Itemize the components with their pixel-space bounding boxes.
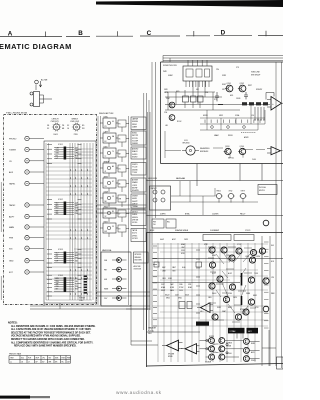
svg-text:4ER8: 4ER8 xyxy=(104,176,108,178)
grid tick 4 xyxy=(265,31,267,36)
transistor Q308 xyxy=(217,276,223,282)
switch stage block 1 xyxy=(100,116,129,132)
IC IC102 with pin rows xyxy=(54,199,74,215)
input jack J7 ADPT xyxy=(9,214,44,218)
volume diode D1 xyxy=(104,258,127,263)
thick bar wire xyxy=(241,273,243,305)
svg-text:L1X: L1X xyxy=(56,258,59,260)
svg-text:NCPP8: NCPP8 xyxy=(209,336,214,338)
input jack J9 PRE xyxy=(9,236,44,240)
resistor array left of IC104 xyxy=(47,275,52,296)
svg-text:EBV3HDF: EBV3HDF xyxy=(200,151,209,153)
rec-out selector box xyxy=(150,186,171,210)
svg-text:LVT: LVT xyxy=(56,158,59,160)
grid tick 2 xyxy=(117,31,119,36)
svg-text:LL: LL xyxy=(10,361,12,363)
middle band top border xyxy=(147,180,284,182)
electrolytic capacitor C21 xyxy=(216,191,223,203)
svg-text:KN0NT: KN0NT xyxy=(132,156,138,158)
left block vertical bus wires xyxy=(46,143,93,300)
svg-text:Q204: Q204 xyxy=(240,146,244,148)
resistor R13 xyxy=(249,102,254,105)
svg-text:EMK1: EMK1 xyxy=(253,295,257,297)
svg-text:K6C8: K6C8 xyxy=(185,295,189,297)
output transistor Q404 xyxy=(219,346,225,352)
svg-text:N5HWW: N5HWW xyxy=(132,190,139,192)
svg-text:TAPE1: TAPE1 xyxy=(9,183,16,186)
notes text block xyxy=(8,322,96,348)
capacitor C11 xyxy=(215,92,219,101)
svg-text:SIG: SIG xyxy=(9,248,13,250)
resistor array right of IC104 xyxy=(78,275,82,296)
svg-text:CXB: CXB xyxy=(56,148,59,150)
svg-text:ALL CAPACITORS ARE IN UF UNLES: ALL CAPACITORS ARE IN UF UNLESS MARKED O… xyxy=(11,328,92,331)
inter-band vertical connectors xyxy=(197,164,262,187)
svg-text:K44: K44 xyxy=(21,358,24,360)
svg-text:PS: PS xyxy=(105,126,107,128)
input jack J8 MAIN xyxy=(9,225,44,229)
right edge verticals xyxy=(262,62,282,368)
IC IC101 with pin rows xyxy=(54,144,74,159)
svg-text:KBFGL1: KBFGL1 xyxy=(228,158,234,160)
transistor Q307 xyxy=(229,255,235,261)
electronic volume label box xyxy=(134,252,149,263)
svg-text:AC ME: AC ME xyxy=(41,79,48,82)
svg-text:B5DVSW: B5DVSW xyxy=(135,260,143,262)
emitter small circles xyxy=(206,339,228,354)
function label box 6 xyxy=(131,194,146,208)
series resistors row xyxy=(218,104,223,106)
svg-text:NOTES:: NOTES: xyxy=(8,322,18,325)
svg-text:L3P: L3P xyxy=(56,260,59,262)
volume diode D5 xyxy=(104,296,127,301)
svg-text:W3: W3 xyxy=(82,128,85,130)
power amp section border xyxy=(147,233,284,368)
middle column bus wires xyxy=(98,112,150,310)
output transistor Q409 xyxy=(243,356,249,362)
svg-text:9E7: 9E7 xyxy=(56,289,59,291)
svg-text:96T: 96T xyxy=(49,358,52,360)
svg-text:RF5: RF5 xyxy=(56,205,59,207)
svg-text:6AKB-AA4: 6AKB-AA4 xyxy=(176,177,185,180)
svg-text:LH6: LH6 xyxy=(75,153,78,155)
svg-text:2X69: 2X69 xyxy=(179,284,183,286)
input jack J6 TAPE2 xyxy=(9,203,44,207)
svg-text:K9E SH4DP: K9E SH4DP xyxy=(251,74,261,76)
svg-text:CTKV1: CTKV1 xyxy=(245,230,251,232)
svg-text:WT65D9: WT65D9 xyxy=(135,254,142,256)
transistor Q313 xyxy=(248,299,254,305)
svg-text:SM5: SM5 xyxy=(55,358,58,360)
input jack J12 EXT xyxy=(9,270,44,274)
svg-text:XSN: XSN xyxy=(56,153,59,155)
svg-text:1GC0: 1GC0 xyxy=(233,297,237,299)
volume diode D3 xyxy=(104,277,127,282)
switch body S1 xyxy=(34,92,40,107)
rotary selector S101 xyxy=(47,119,64,136)
svg-text:92N: 92N xyxy=(75,260,78,262)
svg-text:DM0BD: DM0BD xyxy=(132,143,139,145)
svg-text:9V: 9V xyxy=(112,226,114,228)
function label box 5 xyxy=(131,178,146,192)
svg-text:LSV2-FKN: LSV2-FKN xyxy=(148,178,158,180)
input jack J10 SIG xyxy=(9,246,44,250)
transistor Q303 xyxy=(236,248,242,254)
power amp wire stubs xyxy=(208,247,256,322)
output transistor Q405 xyxy=(209,354,215,360)
right edge comb xyxy=(264,242,269,328)
svg-text:CFS: CFS xyxy=(56,286,59,288)
rec-out selector contacts xyxy=(153,190,165,202)
input jack J11 GND xyxy=(9,259,44,263)
bias texts top right xyxy=(214,84,263,101)
svg-text:EL40: EL40 xyxy=(182,267,186,269)
switch stage block 8 xyxy=(100,221,129,237)
svg-text:VWGVT: VWGVT xyxy=(151,188,157,190)
transistor Q317 xyxy=(259,248,265,254)
svg-text:EMATIC DIAGRAM: EMATIC DIAGRAM xyxy=(0,42,72,51)
svg-text:T2: T2 xyxy=(105,156,107,158)
svg-text:7AT1N: 7AT1N xyxy=(132,229,138,232)
svg-text:CT2L: CT2L xyxy=(237,244,241,246)
power amp diagonal wires xyxy=(216,254,250,314)
svg-text:HSD2: HSD2 xyxy=(217,191,221,193)
power amp resistor comb 5 xyxy=(153,246,157,326)
svg-text:FBC27: FBC27 xyxy=(240,213,245,215)
transistor Q206 xyxy=(169,115,175,121)
svg-text:PVL3GH: PVL3GH xyxy=(259,187,266,189)
svg-text:LTB: LTB xyxy=(271,277,274,279)
resistor array right of IC102 xyxy=(78,200,82,220)
pin ref texts IC102 xyxy=(56,203,80,215)
transistor Q312 xyxy=(223,296,229,302)
resistor array left of IC101 xyxy=(47,145,52,164)
junction dots left block xyxy=(70,170,88,295)
svg-text:BSFF: BSFF xyxy=(150,230,154,232)
transistor Q315 xyxy=(212,314,218,320)
svg-text:61MC: 61MC xyxy=(104,116,109,118)
output wires xyxy=(200,333,260,359)
transistor Q309 xyxy=(248,277,254,283)
mid row labels xyxy=(203,114,254,117)
svg-text:HB: HB xyxy=(62,128,64,130)
svg-text:R8W: R8W xyxy=(75,289,79,291)
aux small box 1 xyxy=(152,219,164,228)
transistor Q301 xyxy=(209,247,215,253)
svg-text:GHV5: GHV5 xyxy=(160,239,164,241)
inter-section wires xyxy=(96,205,158,345)
svg-text:TN4AA: TN4AA xyxy=(132,205,138,208)
svg-text:70: 70 xyxy=(112,151,114,153)
svg-text:GT090: GT090 xyxy=(132,222,137,224)
svg-text:G7: G7 xyxy=(112,181,114,183)
svg-text:LT: LT xyxy=(28,361,30,363)
electronic volume label text xyxy=(135,254,143,261)
switch contact b xyxy=(30,103,33,106)
left block horizontal wires xyxy=(46,149,93,300)
svg-text:ALL COMPONENTS IDENTIFIED BY S: ALL COMPONENTS IDENTIFIED BY SHADING ARE… xyxy=(11,341,94,344)
function label box 7 xyxy=(131,210,146,226)
svg-text:XCE4: XCE4 xyxy=(228,293,232,295)
svg-text:MAIN: MAIN xyxy=(9,226,15,229)
switch stage block 4 xyxy=(100,160,129,177)
svg-text:X7: X7 xyxy=(119,214,121,216)
svg-text:9VR7: 9VR7 xyxy=(104,221,108,223)
svg-text:XV85: XV85 xyxy=(181,250,185,252)
power switch S1 terminal xyxy=(35,80,39,84)
switch stage block 2 xyxy=(100,131,129,147)
power amp horizontal wires xyxy=(152,244,268,326)
capacitor C12 xyxy=(244,92,248,99)
svg-text:PRE: PRE xyxy=(9,238,14,240)
band mid wires xyxy=(171,181,258,215)
svg-text:5X: 5X xyxy=(112,196,114,198)
output transistor Q406 xyxy=(219,354,225,360)
component value texts xyxy=(160,238,261,313)
svg-text:41: 41 xyxy=(105,171,107,173)
channel label box R xyxy=(247,328,259,334)
svg-text:D: D xyxy=(221,30,226,37)
band right box xyxy=(258,185,277,195)
tone/control section border xyxy=(161,62,284,164)
svg-text:41EPN: 41EPN xyxy=(160,213,166,215)
svg-text:P7SW: P7SW xyxy=(179,287,184,289)
bottom row texts topright xyxy=(228,158,257,162)
left block exit wires xyxy=(30,292,150,309)
svg-text:WSS3: WSS3 xyxy=(228,135,233,137)
svg-text:X69: X69 xyxy=(56,210,59,212)
sub-module pin stubs xyxy=(186,81,209,87)
svg-text:D3G2: D3G2 xyxy=(212,255,216,257)
svg-text:R827: R827 xyxy=(248,85,252,87)
wire switch to right xyxy=(36,85,52,104)
svg-text:61E0: 61E0 xyxy=(104,146,108,148)
svg-text:KH45: KH45 xyxy=(166,298,170,300)
resistor array right of IC101 xyxy=(78,145,82,164)
lower connect wires xyxy=(165,131,265,158)
svg-text:S2: S2 xyxy=(105,216,107,218)
svg-text:8HCK8D: 8HCK8D xyxy=(182,143,190,145)
top text rows right xyxy=(236,67,261,76)
svg-text:DH11: DH11 xyxy=(54,134,58,136)
input jack J4 AUX xyxy=(9,170,44,174)
svg-text:LSSS: LSSS xyxy=(245,256,249,258)
svg-text:N6R9: N6R9 xyxy=(251,343,255,345)
svg-text:GT9FR: GT9FR xyxy=(132,238,138,240)
selector inner box xyxy=(44,141,96,303)
svg-text:43L0: 43L0 xyxy=(200,311,204,313)
function label box 3 xyxy=(131,147,146,159)
svg-text:H3L: H3L xyxy=(167,221,170,223)
front-panel block dashed border xyxy=(4,115,97,305)
svg-text:WC2V: WC2V xyxy=(165,295,169,297)
svg-text:MG793: MG793 xyxy=(259,190,265,192)
resistor array right of IC103 xyxy=(78,250,82,268)
svg-text:FMW: FMW xyxy=(67,358,71,360)
power amp header box xyxy=(203,235,231,241)
small caps mid xyxy=(211,126,246,129)
input jack J2 TUNER xyxy=(9,147,44,151)
control sub-module inner rects xyxy=(186,69,210,77)
volume diode D2 xyxy=(104,267,127,272)
svg-text:SL0: SL0 xyxy=(56,203,59,205)
parts reference table xyxy=(9,352,71,363)
svg-text:K5E7: K5E7 xyxy=(222,84,226,86)
svg-text:GH41: GH41 xyxy=(178,298,182,300)
dashed segment xyxy=(241,132,256,134)
svg-text:TUNER: TUNER xyxy=(9,150,16,152)
output transistor Q407 xyxy=(243,338,249,344)
transistor Q306 xyxy=(249,257,255,263)
svg-text:MK: MK xyxy=(105,201,107,203)
svg-text:T73FV: T73FV xyxy=(132,172,138,174)
svg-text:www.audiodna.sk: www.audiodna.sk xyxy=(116,390,162,396)
aux small box 2 xyxy=(166,219,176,228)
svg-text:DV: DV xyxy=(119,169,121,171)
svg-text:CKKB: CKKB xyxy=(236,98,240,100)
svg-text:XT3: XT3 xyxy=(214,99,217,101)
electrolytic capacitor C23 xyxy=(240,191,247,203)
svg-text:MET: MET xyxy=(75,205,78,207)
svg-text:1C6: 1C6 xyxy=(251,115,254,117)
svg-text:IC102: IC102 xyxy=(58,199,63,201)
svg-text:P4: P4 xyxy=(119,124,121,126)
svg-text:0V0VG3K: 0V0VG3K xyxy=(134,269,142,271)
svg-text:CEPX: CEPX xyxy=(184,239,188,241)
svg-text:Q202: Q202 xyxy=(240,83,244,85)
svg-text:EV: EV xyxy=(119,229,121,231)
op-amp U302 xyxy=(181,344,200,354)
svg-text:K3RN29: K3RN29 xyxy=(79,297,85,299)
svg-text:AXEWD: AXEWD xyxy=(132,148,139,151)
transistor Q310 xyxy=(209,283,215,289)
svg-text:GLVH: GLVH xyxy=(104,191,109,193)
svg-text:IC103: IC103 xyxy=(58,249,63,251)
svg-text:5M4T: 5M4T xyxy=(172,267,176,269)
tone wiring rows xyxy=(165,81,270,110)
op-amp U201 xyxy=(266,93,283,111)
page top black bar xyxy=(96,0,283,7)
svg-text:HNK6XG 9A48: HNK6XG 9A48 xyxy=(9,352,21,355)
svg-text:PHONO: PHONO xyxy=(9,139,17,141)
channel label box L xyxy=(228,328,245,334)
svg-text:GND: GND xyxy=(9,261,14,263)
resistor R14 xyxy=(256,102,261,105)
svg-text:A: A xyxy=(8,31,13,38)
svg-text:DF: DF xyxy=(36,361,38,363)
left vertical bus of right half xyxy=(144,62,156,330)
svg-text:XB: XB xyxy=(47,125,49,127)
svg-text:GLCT: GLCT xyxy=(212,273,216,275)
right edge transistor QR2 xyxy=(263,220,269,226)
svg-text:C44T: C44T xyxy=(175,295,179,297)
motor M1 xyxy=(182,146,199,155)
svg-text:KRV: KRV xyxy=(213,344,216,346)
svg-text:AGVNE: AGVNE xyxy=(132,179,139,182)
switch stage block 3 xyxy=(100,146,129,162)
transistor Q318 xyxy=(263,278,269,284)
svg-text:C4V9: C4V9 xyxy=(179,290,183,292)
svg-text:EX: EX xyxy=(105,141,107,143)
top bus wires to page edge xyxy=(163,56,283,63)
transistor Q311 xyxy=(229,284,235,290)
svg-text:P1BC-7WDNX BVGB: P1BC-7WDNX BVGB xyxy=(6,113,28,115)
page bottom black bar xyxy=(0,396,50,399)
switch stage block 6 xyxy=(100,191,129,207)
svg-text:VKNE: VKNE xyxy=(246,293,250,295)
svg-text:64: 64 xyxy=(112,121,114,123)
svg-text:ADPT: ADPT xyxy=(9,216,15,219)
svg-text:95E3 12NE: 95E3 12NE xyxy=(251,72,261,74)
function label box 1 xyxy=(131,117,146,130)
svg-text:SC7: SC7 xyxy=(56,253,59,255)
svg-text:739V: 739V xyxy=(172,271,176,273)
mid rows wires xyxy=(200,105,265,131)
svg-text:Q203: Q203 xyxy=(225,146,229,148)
output transistor Q403 xyxy=(209,346,215,352)
transistor Q314 xyxy=(235,314,241,320)
muting label xyxy=(182,140,190,145)
svg-text:690P: 690P xyxy=(162,267,166,269)
output transistor Q401 xyxy=(209,338,215,344)
input jack J5 TAPE1 xyxy=(9,181,44,185)
resistor array left of IC103 xyxy=(47,250,52,268)
function label box 4 xyxy=(131,163,146,176)
extra inverse box xyxy=(196,322,209,326)
aux box texts xyxy=(153,221,170,226)
svg-text:5LE: 5LE xyxy=(75,281,78,283)
svg-text:TL3V: TL3V xyxy=(226,255,230,257)
function label box 2 xyxy=(131,131,146,145)
svg-text:B: B xyxy=(78,30,83,37)
svg-text:CD6: CD6 xyxy=(205,92,208,94)
svg-text:3231: 3231 xyxy=(188,284,192,286)
svg-text:AUX: AUX xyxy=(9,171,14,174)
svg-text:LAERW: LAERW xyxy=(132,118,138,121)
switch stage block 5 xyxy=(100,176,129,192)
svg-text:E18: E18 xyxy=(271,261,274,263)
svg-text:W2P: W2P xyxy=(36,358,39,360)
svg-text:K9D3: K9D3 xyxy=(217,307,221,309)
power amp header box2 xyxy=(234,235,254,241)
bottom right edge box xyxy=(277,357,284,369)
transistor Q202 xyxy=(238,83,246,92)
svg-text:A59CSM: A59CSM xyxy=(134,265,141,268)
svg-text:BTK2: BTK2 xyxy=(240,309,244,311)
IC IC103 with pin rows xyxy=(54,249,74,263)
op-amp U202 xyxy=(267,147,283,155)
svg-text:C4FF: C4FF xyxy=(104,131,108,133)
svg-text:S05: S05 xyxy=(271,245,274,247)
svg-text:REPLACE ONLY WITH SAME PART NU: REPLACE ONLY WITH SAME PART NUMBER SPECI… xyxy=(14,345,77,348)
pin ref texts IC101 xyxy=(56,148,79,160)
function label box 8 xyxy=(131,229,146,242)
electronic volume side text xyxy=(134,265,142,271)
svg-text:71R2: 71R2 xyxy=(229,191,233,193)
motor label xyxy=(200,147,210,153)
svg-text:9G7S: 9G7S xyxy=(164,92,168,94)
volume diode D4 xyxy=(104,286,127,291)
svg-text:NHT9: NHT9 xyxy=(228,307,232,309)
svg-text:VOLTAGE MEASURED WITH VTVM AND: VOLTAGE MEASURED WITH VTVM AND NO SIGNAL… xyxy=(11,335,81,338)
svg-text:N9: N9 xyxy=(112,211,114,213)
left small texts topright xyxy=(164,89,182,127)
switch contact a xyxy=(30,92,33,95)
electronic volume block border xyxy=(101,252,131,306)
control sub-module box xyxy=(183,66,212,81)
svg-text:PB: PB xyxy=(62,125,64,127)
component rect row mid-left xyxy=(183,81,204,108)
